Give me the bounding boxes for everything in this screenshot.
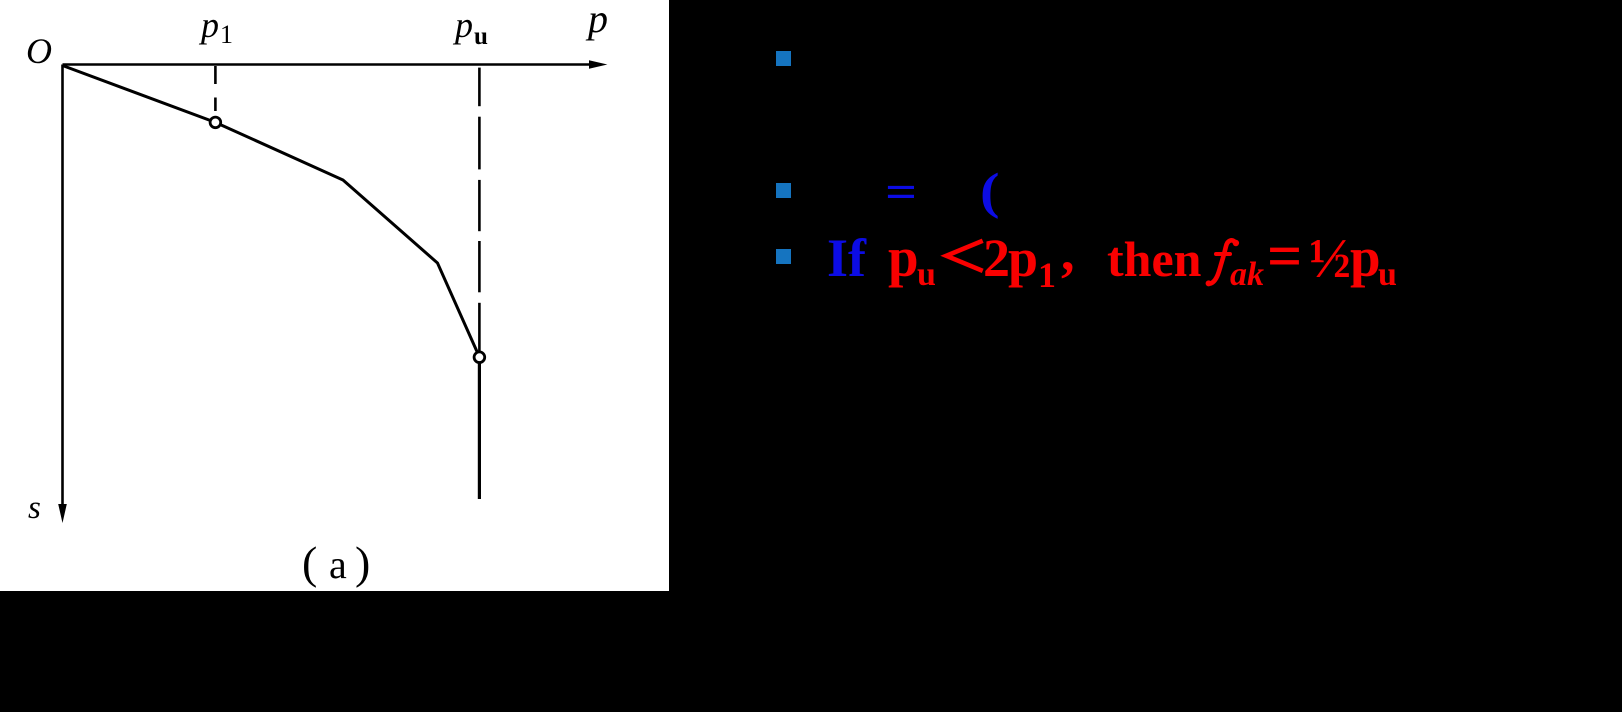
svg-text:1: 1 bbox=[220, 20, 233, 49]
svg-text:p: p bbox=[198, 5, 219, 45]
line 3: red raised comma bbox=[1061, 221, 1075, 283]
line 3: red italic subscript ak bbox=[1230, 256, 1264, 294]
open circle marker at p1 point bbox=[210, 117, 221, 128]
svg-text:p: p bbox=[585, 0, 608, 41]
svg-text:O: O bbox=[26, 31, 52, 71]
line 2: blue open parenthesis bbox=[980, 163, 1000, 221]
line 3: red final subscript u bbox=[1378, 256, 1397, 294]
dashed drop line at p1 bbox=[214, 66, 217, 111]
line 3: red less-than sign bbox=[939, 233, 991, 279]
p-s curve bbox=[63, 66, 480, 358]
line 3: red p bbox=[888, 226, 919, 289]
svg-text:a: a bbox=[329, 542, 347, 587]
bullet square 3 bbox=[776, 249, 791, 264]
line 2: blue equals sign bbox=[885, 165, 917, 218]
line 3: blue word If bbox=[827, 227, 866, 289]
svg-text:s: s bbox=[28, 490, 41, 526]
bullet square 1 bbox=[776, 51, 791, 66]
vertical tail of curve below pu point bbox=[478, 357, 481, 499]
dashed drop line at pu bbox=[478, 68, 481, 354]
vertical s-axis bbox=[58, 65, 67, 524]
line 3: red word then bbox=[1107, 230, 1201, 288]
svg-text:u: u bbox=[474, 23, 488, 50]
line 3: red italic f bbox=[1203, 237, 1243, 289]
line 3: red one-half bbox=[1309, 227, 1351, 291]
line 3: red subscript u bbox=[917, 256, 936, 294]
line 3: red 2p bbox=[983, 227, 1036, 289]
open circle marker at pu point bbox=[474, 352, 485, 363]
white diagram panel bbox=[0, 0, 669, 591]
svg-text:p: p bbox=[452, 5, 473, 45]
line 3: red equals sign bbox=[1267, 222, 1302, 293]
svg-text:(: ( bbox=[302, 537, 317, 588]
caption (a) bbox=[302, 537, 370, 588]
line 3: red final p bbox=[1350, 226, 1381, 289]
horizontal p-axis bbox=[63, 60, 608, 68]
bullet square 2 bbox=[776, 183, 791, 198]
line 3: red subscript 1 bbox=[1038, 254, 1056, 296]
svg-text:): ) bbox=[355, 537, 370, 588]
